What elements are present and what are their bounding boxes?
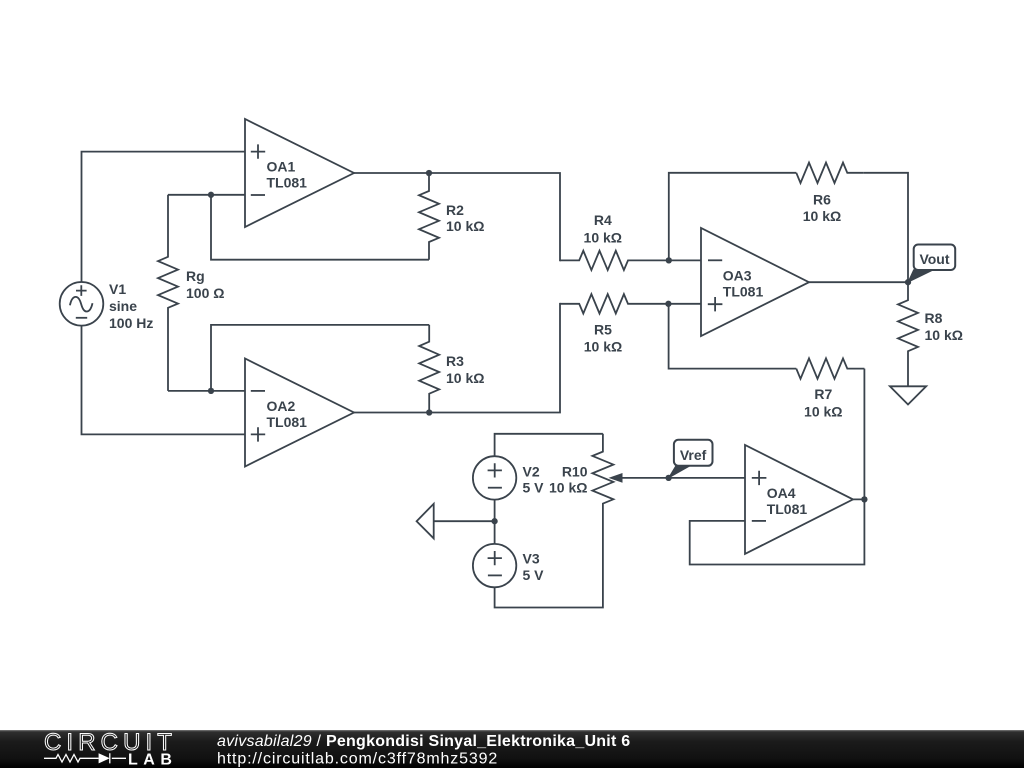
svg-text:avivsabilal29 / Pengkondisi Si: avivsabilal29 / Pengkondisi Sinyal_Elekt… (217, 733, 630, 750)
wire R10 bottom to V3 bottom (495, 518, 603, 608)
junction dot node C (OA3 inv) (666, 257, 672, 263)
svg-text:10 kΩ: 10 kΩ (804, 404, 842, 420)
svg-text:Vout: Vout (919, 251, 949, 267)
wire R7 right down to OA4 output node (863, 369, 865, 500)
svg-text:5 V: 5 V (523, 479, 545, 495)
svg-text:V3: V3 (523, 550, 540, 566)
wire OA1 output to R4 (354, 173, 561, 260)
OA1 - pin symbol (251, 194, 265, 196)
svg-text:sine: sine (109, 298, 137, 314)
resistor R5 (10k) horizontal (560, 294, 701, 313)
op-amp OA1 triangle (245, 119, 354, 227)
OA3 + pin symbol (708, 297, 723, 311)
wire node A down to R2 bottom (211, 195, 429, 260)
OA2 - pin symbol (251, 390, 265, 392)
svg-text:100 Hz: 100 Hz (109, 315, 153, 331)
CircuitLab logo resistor-diode glyph (44, 753, 126, 763)
svg-text:OA1: OA1 (267, 159, 296, 175)
svg-text:10 kΩ: 10 kΩ (925, 327, 963, 343)
resistor R2 (10k) vertical (419, 173, 439, 260)
resistor R8 (10k) vertical (898, 282, 918, 386)
resistor R7 (10k) horizontal (796, 358, 864, 378)
ground G2 left-pointing (417, 504, 434, 539)
wire V1+ to OA1 + input (82, 152, 246, 283)
V2 plus sign (488, 463, 502, 477)
resistor R3 (10k) vertical (419, 325, 439, 413)
svg-text:10 kΩ: 10 kΩ (803, 208, 841, 224)
svg-text:OA2: OA2 (267, 398, 296, 414)
svg-text:V1: V1 (109, 281, 126, 297)
svg-text:R10: R10 (562, 463, 588, 479)
wire OA4 output and feedback loop to OA4 - input (690, 499, 865, 564)
svg-text:V2: V2 (523, 463, 540, 479)
Vref flag tail (669, 465, 691, 478)
OA2 + pin symbol (251, 427, 265, 441)
svg-text:TL081: TL081 (267, 414, 308, 430)
svg-text:R4: R4 (594, 212, 612, 228)
svg-text:10 kΩ: 10 kΩ (446, 370, 484, 386)
wire OA3 output to Vout node (809, 281, 908, 283)
wire V1- to OA2 + input (82, 326, 246, 435)
R10 wiper arrow head (609, 473, 623, 483)
V3 minus sign (488, 574, 502, 576)
svg-text:LAB: LAB (128, 752, 177, 768)
resistor Rg (100 ohm) vertical (158, 195, 178, 391)
ground G1 under R8 (890, 386, 926, 404)
wire R10 wiper to OA4 + input (622, 477, 745, 479)
svg-text:R3: R3 (446, 353, 464, 369)
svg-text:R2: R2 (446, 202, 464, 218)
Vout flag box (914, 245, 956, 271)
junction dot node OA4 out (861, 496, 867, 502)
svg-text:10 kΩ: 10 kΩ (549, 479, 587, 495)
svg-text:OA3: OA3 (723, 268, 752, 284)
junction dot node D (OA3 non-inv) (665, 301, 671, 307)
OA1 + pin symbol (251, 144, 265, 158)
wire V2- to V3+ (494, 500, 496, 544)
op-amp OA2 triangle (245, 359, 354, 467)
OA4 - pin symbol (752, 520, 766, 522)
wire node B up to R3 top (211, 325, 429, 391)
Vout flag tail (908, 270, 933, 282)
svg-text:R7: R7 (814, 386, 832, 402)
junction dot node R2/OA1 out (426, 170, 432, 176)
svg-text:100 Ω: 100 Ω (186, 285, 224, 301)
OA3 - pin symbol (708, 259, 722, 261)
svg-text:10 kΩ: 10 kΩ (584, 230, 622, 246)
op-amp OA4 triangle (745, 445, 853, 554)
svg-text:http://circuitlab.com/c3ff78mh: http://circuitlab.com/c3ff78mhz5392 (217, 751, 498, 768)
svg-text:10 kΩ: 10 kΩ (446, 218, 484, 234)
source V2 circle (473, 456, 516, 499)
V1 sine wave glyph (70, 297, 93, 312)
op-amp OA3 triangle (701, 228, 809, 336)
V2 minus sign (488, 487, 502, 489)
resistor R6 (10k) horizontal (796, 163, 863, 183)
junction dot node B (OA2 inv) (208, 388, 214, 394)
wire Rg bottom to OA2 - input (168, 390, 245, 392)
OA4 + pin symbol (752, 471, 767, 485)
svg-text:TL081: TL081 (767, 501, 808, 517)
svg-text:TL081: TL081 (267, 175, 308, 191)
V3 plus sign (488, 551, 502, 565)
wire node D down to R7 left (669, 304, 797, 369)
wire ground spur to V2/V3 junction (434, 520, 495, 522)
wire R6 right down to Vout node (863, 173, 908, 282)
wire OA2 output to R5 (354, 304, 561, 413)
Vref flag box (674, 440, 713, 466)
source V3 circle (473, 544, 516, 587)
junction dot node V2/V3 junction (491, 518, 497, 524)
wire V2 top to R10 top (495, 434, 603, 456)
junction dot node R3/OA2 out (426, 409, 432, 415)
junction dot node A (OA1 inv) (208, 192, 214, 198)
svg-text:OA4: OA4 (767, 485, 796, 501)
V1 minus sign (76, 317, 87, 319)
svg-text:R6: R6 (813, 192, 831, 208)
resistor R4 (10k) horizontal (560, 251, 701, 270)
svg-text:R8: R8 (925, 310, 943, 326)
junction dot node Vref (665, 475, 671, 481)
svg-text:Vref: Vref (680, 447, 707, 463)
svg-text:Rg: Rg (186, 268, 205, 284)
wire node C up to R6 left (669, 173, 797, 261)
potentiometer R10 (10k) vertical body (592, 434, 613, 518)
wire OA1 - input to Rg top (168, 194, 245, 196)
source V1 sine circle (60, 282, 104, 326)
V1 plus sign (76, 285, 87, 296)
svg-text:10 kΩ: 10 kΩ (584, 339, 622, 355)
junction dot node Vout (905, 279, 911, 285)
svg-text:TL081: TL081 (723, 284, 764, 300)
svg-text:5 V: 5 V (523, 567, 545, 583)
svg-text:R5: R5 (594, 322, 612, 338)
